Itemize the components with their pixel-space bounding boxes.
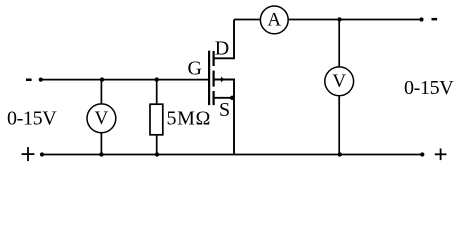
wire top rail left segment — [234, 19, 260, 21]
wire V2 top lead — [338, 20, 340, 67]
node junction V1 top — [100, 77, 104, 81]
svg-text:0-15V: 0-15V — [404, 77, 454, 99]
svg-text:A: A — [267, 10, 281, 31]
transistor Q1 gate bar — [208, 51, 210, 106]
svg-text:5MΩ: 5MΩ — [167, 108, 211, 130]
wire R1 top lead — [156, 80, 158, 105]
label 0-15V left — [7, 108, 57, 130]
transistor Q1 body arrow — [221, 77, 225, 83]
node Q1 source-body junction — [230, 96, 234, 100]
transistor Q1 channel dash bottom — [213, 91, 215, 105]
svg-text:G: G — [188, 58, 202, 80]
node junction V2 top — [337, 17, 341, 21]
voltmeter V2 — [325, 67, 354, 96]
node right bottom endpoint — [420, 152, 424, 156]
wire Q1 drain stub — [215, 20, 234, 59]
node left bottom endpoint — [40, 152, 44, 156]
ammeter A1 — [260, 6, 288, 34]
svg-text:V: V — [332, 71, 346, 92]
svg-text:S: S — [219, 99, 230, 121]
node left top endpoint — [39, 78, 43, 82]
voltmeter V1 — [87, 104, 116, 133]
label 0-15V right — [404, 77, 454, 99]
label S — [219, 99, 230, 121]
node right top endpoint — [419, 17, 423, 21]
wire left gate rail — [41, 79, 209, 81]
svg-text:V: V — [95, 108, 109, 129]
svg-text:D: D — [215, 37, 229, 59]
label G — [188, 58, 202, 80]
wire Q1 source stub — [215, 97, 233, 99]
transistor Q1 channel dash middle — [213, 71, 215, 87]
transistor Q1 channel dash top — [213, 51, 215, 66]
terminal minus right — [432, 18, 438, 21]
node junction R1 top — [155, 77, 159, 81]
node junction R1 bottom — [155, 152, 159, 156]
wire V1 bottom lead — [100, 133, 102, 155]
wire V2 bottom lead — [338, 96, 340, 155]
svg-text:0-15V: 0-15V — [7, 108, 57, 130]
wire top rail right segment — [288, 19, 422, 21]
wire V1 top lead — [100, 80, 102, 104]
label D — [215, 37, 229, 59]
terminal plus right — [435, 149, 447, 161]
resistor R1 — [150, 104, 163, 135]
node junction V1 bottom — [99, 152, 103, 156]
wire bottom rail — [42, 154, 422, 156]
node junction V2 bottom — [338, 152, 342, 156]
wire Q1 body stub — [215, 80, 234, 154]
terminal plus left — [22, 147, 35, 161]
wire R1 bottom lead — [156, 135, 158, 155]
label R1 value 5MΩ — [167, 108, 211, 130]
terminal minus left — [26, 79, 32, 82]
